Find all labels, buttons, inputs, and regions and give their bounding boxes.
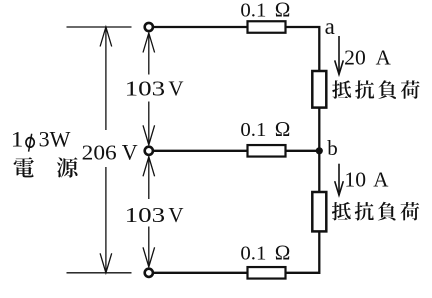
svg-text:20: 20: [344, 45, 366, 69]
load1 label char 荷: [401, 80, 420, 98]
svg-text:10: 10: [344, 168, 366, 192]
load2 label char 負: [378, 202, 396, 221]
svg-text:103: 103: [125, 203, 166, 227]
103V lower dim line a: [148, 157, 150, 199]
svg-text:Ω: Ω: [275, 0, 291, 22]
load2 label char 荷: [401, 202, 420, 220]
206V arrowhead up: [100, 27, 112, 47]
label GEN (source): [57, 157, 78, 177]
svg-text:0.1: 0.1: [240, 243, 266, 265]
wire bottom row left: [154, 272, 248, 274]
load2 label char 抵: [332, 202, 351, 220]
load resistor 2 (10A): [312, 192, 326, 231]
resistor R line-a 0.1ohm: [248, 21, 286, 33]
103V upper dim line a: [148, 33, 150, 75]
svg-text:a: a: [325, 14, 335, 39]
206V dimension line upper segment: [105, 27, 107, 130]
svg-text:0.1: 0.1: [240, 0, 266, 22]
load2 label char 抗: [355, 202, 374, 221]
103V upper dim line b: [148, 102, 150, 145]
phi symbol bar: [29, 134, 32, 152]
206V arrowhead down: [100, 253, 112, 272]
load resistor 1 (20A): [312, 71, 326, 108]
103V upper arrowhead up: [143, 33, 155, 53]
svg-text:206: 206: [82, 140, 117, 164]
svg-text:1: 1: [11, 127, 24, 152]
phi symbol bowl: [26, 138, 34, 148]
103V lower arrowhead up: [143, 157, 155, 177]
svg-text:V: V: [168, 77, 183, 101]
svg-text:3W: 3W: [39, 127, 71, 152]
wire top row right + corner down to load1: [286, 27, 320, 72]
svg-text:Ω: Ω: [275, 241, 291, 265]
svg-text:103: 103: [125, 77, 166, 101]
svg-text:V: V: [168, 203, 183, 227]
current arrow 10A shaft: [338, 164, 340, 196]
load1 label char 抵: [332, 80, 351, 98]
extension tick line bottom: [67, 272, 132, 274]
wire bottom row right + corner up to load2: [286, 231, 320, 273]
current arrow 10A head: [335, 181, 344, 195]
svg-text:Ω: Ω: [275, 117, 291, 141]
current arrow 20A shaft: [338, 36, 340, 74]
extension tick line top: [67, 26, 132, 28]
terminal circle top: [145, 23, 153, 31]
load1 label char 抗: [355, 80, 374, 99]
svg-text:0.1: 0.1: [240, 119, 266, 141]
svg-text:A: A: [376, 45, 392, 69]
wire mid row right to node b: [286, 150, 320, 152]
206V dimension line lower segment: [105, 167, 107, 273]
resistor R line-b 0.1ohm: [248, 267, 286, 279]
load1 label char 負: [378, 80, 396, 99]
wire bus load1 to node b to load2: [318, 107, 320, 194]
svg-text:b: b: [327, 136, 338, 160]
svg-text:A: A: [373, 168, 389, 192]
wire mid row left: [154, 150, 248, 152]
label DEN (electric): [14, 157, 34, 177]
resistor R neutral 0.1ohm: [248, 145, 286, 157]
svg-text:V: V: [122, 139, 138, 164]
terminal circle bottom: [145, 269, 153, 277]
node b junction dot: [316, 147, 323, 154]
wire top row left: [154, 26, 248, 28]
terminal circle middle: [145, 147, 153, 155]
103V upper arrowhead down: [143, 125, 155, 145]
current arrow 20A head: [335, 60, 344, 74]
103V lower dim line b: [148, 227, 150, 267]
103V lower arrowhead down: [143, 247, 155, 266]
